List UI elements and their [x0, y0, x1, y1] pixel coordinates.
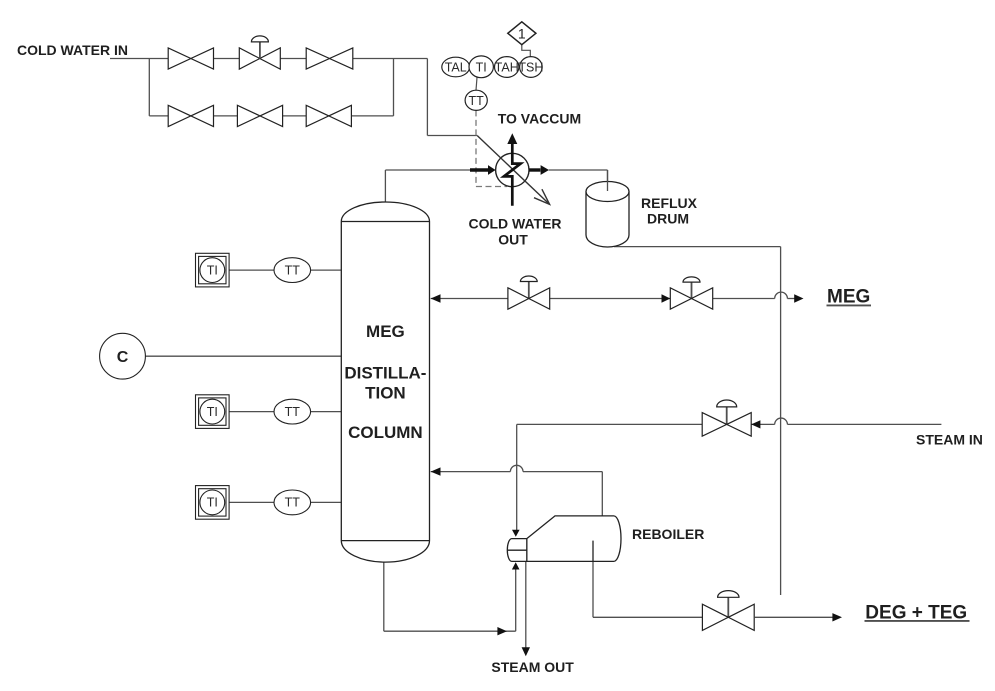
svg-text:COLD WATER IN: COLD WATER IN — [17, 42, 128, 58]
svg-text:REBOILER: REBOILER — [632, 526, 704, 542]
svg-text:C: C — [117, 349, 129, 366]
svg-text:TAH: TAH — [495, 61, 519, 75]
svg-text:DISTILLA-: DISTILLA- — [344, 364, 426, 383]
svg-text:OUT: OUT — [498, 232, 528, 248]
svg-text:TT: TT — [469, 94, 485, 108]
svg-text:MEG: MEG — [827, 287, 870, 308]
svg-text:TI: TI — [207, 263, 218, 277]
svg-text:TT: TT — [285, 496, 301, 510]
svg-text:TAL: TAL — [445, 61, 467, 75]
svg-text:TI: TI — [207, 496, 218, 510]
svg-text:TT: TT — [285, 405, 301, 419]
svg-text:TSH: TSH — [518, 61, 543, 75]
svg-text:COLUMN: COLUMN — [348, 423, 423, 442]
svg-text:REFLUX: REFLUX — [641, 195, 698, 211]
svg-text:1: 1 — [518, 25, 526, 41]
svg-text:TION: TION — [365, 384, 406, 403]
svg-text:COLD WATER: COLD WATER — [468, 216, 561, 232]
svg-text:TI: TI — [207, 405, 218, 419]
svg-text:TT: TT — [285, 263, 301, 277]
svg-text:STEAM OUT: STEAM OUT — [491, 659, 574, 675]
svg-text:TI: TI — [476, 61, 487, 75]
svg-text:MEG: MEG — [366, 322, 405, 341]
svg-text:TO VACCUM: TO VACCUM — [498, 111, 581, 127]
svg-text:DRUM: DRUM — [647, 210, 689, 226]
svg-text:STEAM IN: STEAM IN — [916, 432, 983, 448]
